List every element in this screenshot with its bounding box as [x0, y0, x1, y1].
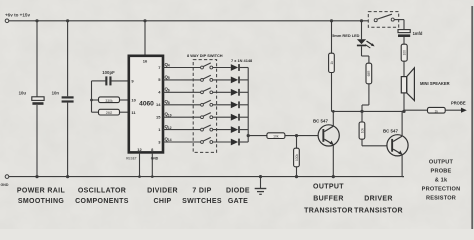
resistor R8 100R speaker series — [401, 44, 407, 61]
ground symbol — [255, 177, 267, 195]
switch S1 pole 7 — [201, 137, 213, 143]
wire diode OR bus vertical — [247, 68, 249, 143]
capacitor C4 1mfd — [398, 30, 423, 37]
wire switch 6 to diode — [213, 129, 231, 131]
wire osc 2M2 branch — [92, 111, 99, 113]
wire probe resistor to arrow — [445, 109, 462, 111]
svg-text:10u: 10u — [19, 91, 27, 96]
svg-text:7 DIP: 7 DIP — [192, 188, 211, 195]
junction gnd rail 10n — [66, 175, 69, 178]
svg-text:OSCILLATOR: OSCILLATOR — [78, 188, 126, 195]
wire 100R to speaker — [403, 61, 405, 76]
wire 10k to T1 base — [285, 135, 318, 137]
switch S1 pole 3 — [201, 88, 213, 94]
switch S1 pole 1 — [201, 63, 213, 69]
svg-text:POWER RAIL: POWER RAIL — [17, 188, 66, 195]
svg-text:10: 10 — [131, 98, 136, 103]
label DIVIDER CHIP — [147, 188, 178, 205]
resistor R3 10k — [267, 133, 285, 139]
node PROBE output arrow — [451, 100, 467, 112]
wire Q8 row chip to switch — [163, 104, 201, 106]
svg-text:14: 14 — [156, 102, 161, 107]
wire switch 7 to diode — [213, 141, 231, 143]
svg-text:DIODE: DIODE — [226, 188, 250, 195]
svg-text:330k: 330k — [105, 99, 113, 103]
wire T1 emitter vertical — [332, 145, 334, 177]
wire diode D1 to bus — [240, 67, 248, 69]
resistor R6 68R led series — [366, 63, 372, 84]
svg-text:12: 12 — [137, 147, 142, 152]
svg-text:2M2: 2M2 — [106, 111, 113, 115]
svg-text:8 WAY DIP SWITCH: 8 WAY DIP SWITCH — [187, 53, 223, 58]
svg-text:TRANSISTOR: TRANSISTOR — [354, 207, 403, 214]
svg-text:RESET: RESET — [126, 157, 137, 161]
wire T1 collector vertical — [332, 111, 334, 126]
svg-text:OUTPUT: OUTPUT — [313, 183, 344, 190]
resistor R2 2M2 — [99, 109, 120, 115]
svg-text:10k: 10k — [360, 128, 364, 134]
node +V supply terminal — [5, 13, 30, 23]
wire diode D5 to bus — [240, 116, 248, 118]
svg-text:1mfd: 1mfd — [413, 31, 423, 36]
junction node at speaker/T2 — [402, 110, 405, 113]
switch S1 pole 5 — [201, 113, 213, 119]
wire switch 1 to diode — [213, 67, 231, 69]
wire 10k to T2 base — [361, 139, 363, 146]
svg-text:100pF: 100pF — [102, 70, 115, 75]
wire Q12 row chip to switch — [163, 129, 201, 131]
svg-text:Q12: Q12 — [165, 124, 172, 130]
svg-text:BC 547: BC 547 — [313, 118, 328, 123]
transistor Q1 BC547 output buffer — [313, 118, 339, 146]
junction top rail at 1k pullup — [330, 19, 333, 22]
wire speaker to node — [403, 93, 405, 112]
svg-text:15: 15 — [156, 115, 161, 120]
wire 1mfd to 100R — [403, 37, 405, 44]
diode LED1 5mm red — [332, 33, 374, 48]
junction top rail at 10u — [35, 19, 38, 22]
switch S1 pole 2 — [201, 75, 213, 81]
junction node at LED branch — [360, 110, 363, 113]
svg-text:GATE: GATE — [228, 198, 248, 205]
svg-text:SWITCHES: SWITCHES — [182, 198, 222, 205]
svg-text:4060: 4060 — [139, 101, 154, 108]
svg-text:BUFFER: BUFFER — [313, 195, 344, 202]
wire collector node horizontal — [332, 110, 405, 112]
svg-text:100k: 100k — [295, 154, 299, 161]
wire Q10 row chip to switch — [163, 116, 201, 118]
wire LED to 68R — [361, 46, 363, 56]
svg-text:1k: 1k — [435, 109, 439, 113]
svg-text:PROTECTION: PROTECTION — [422, 187, 461, 193]
svg-text:+6v to +15v: +6v to +15v — [5, 13, 30, 18]
diode D6 1N4148 — [231, 126, 240, 133]
wire T2 emitter to ground rail — [401, 155, 403, 177]
junction diode bus to base resistor — [247, 134, 250, 137]
diode D4 1N4148 — [231, 101, 240, 108]
svg-text:68R: 68R — [367, 70, 371, 77]
wire node to probe resistor — [404, 109, 428, 111]
svg-text:16: 16 — [143, 59, 148, 64]
wire pin12 reset to ground rail — [139, 153, 141, 177]
svg-text:BC 547: BC 547 — [383, 128, 398, 133]
junction gnd rail 100k — [295, 175, 298, 178]
svg-text:Q10: Q10 — [165, 112, 172, 118]
wire Q14 row chip to switch — [163, 141, 201, 143]
svg-text:5mm RED LED: 5mm RED LED — [332, 33, 359, 38]
wire pin16 supply drop — [144, 21, 146, 56]
resistor R9 1k probe — [428, 107, 446, 113]
label OUTPUT BUFFER TRANSISTOR — [304, 183, 353, 214]
junction gnd rail pin8 — [151, 175, 154, 178]
switch S1 8 way DIP switch box — [187, 53, 223, 152]
label POWER RAIL SMOOTHING — [17, 188, 66, 205]
switch S2 contacts — [374, 14, 394, 22]
wire pin8 gnd to ground rail — [151, 153, 153, 177]
speaker LS1 mini speaker — [401, 68, 449, 101]
wire Q4 row chip to switch — [163, 67, 201, 69]
switch S2 on-off dashed box — [368, 12, 398, 28]
junction gnd rail pin12 — [138, 175, 141, 178]
junction gnd rail 10u — [35, 175, 38, 178]
svg-text:Q6: Q6 — [165, 87, 170, 93]
junction top rail at 10n — [66, 19, 69, 22]
svg-text:CHIP: CHIP — [153, 198, 171, 205]
wire 100k to ground rail — [296, 167, 298, 177]
wire Q5 row chip to switch — [163, 79, 201, 81]
svg-text:1k: 1k — [330, 61, 334, 65]
wire 68R to node — [368, 84, 370, 105]
svg-text:10k: 10k — [273, 135, 279, 139]
wire 100k top — [296, 136, 298, 149]
svg-text:PROBE: PROBE — [451, 100, 466, 105]
svg-text:10n: 10n — [52, 91, 60, 96]
svg-text:Q8: Q8 — [165, 99, 170, 105]
svg-text:MINI SPEAKER: MINI SPEAKER — [420, 81, 450, 86]
wire bottom ground rail — [9, 176, 404, 178]
svg-text:Q5: Q5 — [165, 74, 170, 80]
wire LED branch top — [361, 21, 363, 40]
label OSCILLATOR COMPONENTS — [75, 188, 129, 205]
capacitor C1 10u — [19, 91, 45, 105]
wire switch 3 to diode — [213, 91, 231, 93]
svg-text:& 1k: & 1k — [435, 178, 448, 184]
junction gnd rail earth — [259, 175, 262, 178]
resistor R5 1k pullup — [329, 53, 335, 72]
wire switch S2 output to corner — [394, 19, 404, 21]
svg-text:SMOOTHING: SMOOTHING — [18, 198, 65, 205]
wire diode D7 to bus — [240, 141, 248, 143]
wire 1k pullup bottom to node — [331, 73, 333, 112]
resistor R4 100k — [294, 148, 300, 167]
wire diode D2 to bus — [240, 79, 248, 81]
wire bus to 10k base resistor — [248, 135, 267, 137]
junction top rail at LED branch — [360, 19, 363, 22]
wire 10n vertical — [67, 21, 69, 97]
wire top power rail — [9, 20, 368, 22]
svg-text:TRANSISTOR: TRANSISTOR — [304, 207, 353, 214]
diode D7 1N4148 — [231, 139, 240, 146]
svg-text:GND: GND — [151, 157, 159, 161]
resistor R7 10k driver base — [359, 122, 365, 139]
junction osc left at 330k — [90, 99, 93, 102]
wire oscillator left vertical — [91, 81, 93, 112]
wire 1k pullup top — [331, 21, 333, 53]
diode D3 1N4148 — [231, 89, 240, 96]
wire T2 collector vertical — [401, 111, 403, 136]
op-amp U1 4060 divider chip — [129, 56, 163, 153]
switch S1 pole 6 — [201, 125, 213, 131]
svg-text:RESISTOR: RESISTOR — [426, 196, 456, 202]
node GND terminal — [1, 175, 9, 187]
svg-text:COMPONENTS: COMPONENTS — [75, 198, 129, 205]
svg-text:DRIVER: DRIVER — [364, 195, 393, 202]
capacitor C2 10n — [52, 91, 74, 103]
junction gnd rail T1 emitter — [332, 175, 335, 178]
diode D2 1N4148 — [231, 77, 240, 84]
wire node to 10k T2 base resistor — [361, 111, 363, 122]
junction node at T1 collector — [332, 110, 335, 113]
diode D5 1N4148 — [231, 114, 240, 121]
switch S1 pole 4 — [201, 100, 213, 106]
wire diode D6 to bus — [240, 129, 248, 131]
capacitor C3 100pF — [102, 70, 115, 85]
wire Q6 row chip to switch — [163, 91, 201, 93]
svg-text:DIVIDER: DIVIDER — [147, 188, 178, 195]
wire osc cap branch — [92, 80, 106, 82]
wire 10u vertical — [36, 21, 38, 97]
transistor Q2 BC547 driver — [383, 128, 408, 156]
label DIODE GATE — [226, 188, 250, 205]
svg-text:100: 100 — [403, 50, 407, 56]
svg-text:PROBE: PROBE — [431, 168, 452, 174]
wire switch 2 to diode — [213, 79, 231, 81]
svg-text:OUTPUT: OUTPUT — [429, 159, 454, 165]
label OUTPUT PROBE & 1k PROTECTION RESISTOR — [422, 159, 461, 201]
wire osc 330k branch — [92, 99, 99, 101]
svg-text:Q4: Q4 — [165, 62, 170, 68]
wire switch 5 to diode — [213, 116, 231, 118]
junction top rail at pin16 — [143, 19, 146, 22]
label DRIVER TRANSISTOR — [354, 195, 403, 214]
svg-text:Q14: Q14 — [165, 136, 172, 142]
wire diode D4 to bus — [240, 104, 248, 106]
wire diode D3 to bus — [240, 91, 248, 93]
resistor R1 330k — [99, 97, 120, 103]
junction base node 100k — [295, 134, 298, 137]
svg-text:GND: GND — [1, 183, 9, 187]
diode D1 1N4148 — [231, 64, 240, 71]
label 7 DIP SWITCHES — [182, 188, 222, 205]
wire switch 4 to diode — [213, 104, 231, 106]
svg-text:7 x 1N 4148: 7 x 1N 4148 — [231, 58, 253, 63]
